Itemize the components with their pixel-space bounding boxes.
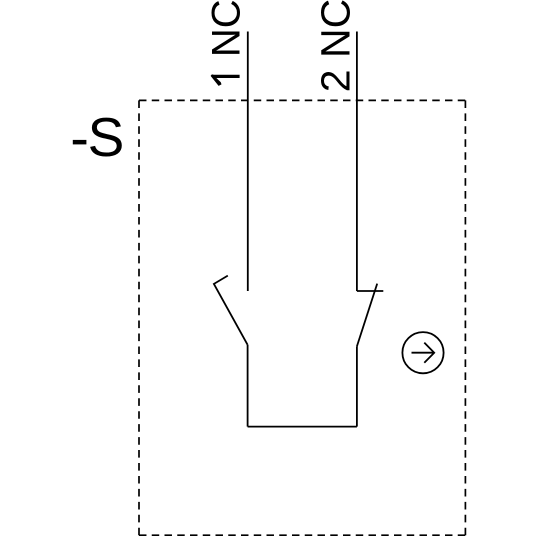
device outline (dashed enclosure) (139, 100, 465, 535)
wire terminal 2 (top, x=356.9) (356, 32, 358, 292)
wire terminal 1 (top, x=247.8) (247, 32, 249, 292)
enclosure right edge (464, 100, 466, 535)
pin label 1 NC : digit 1 (drawn, rotated) (211, 74, 240, 86)
wire lower vertical pin2 side (356, 346, 358, 426)
enclosure bottom edge (139, 534, 465, 536)
reference designator -S : hyphen (73, 140, 87, 145)
actuator symbol: circle with arrow (402, 332, 443, 373)
contact K1 moving arm with bent tip (NC contact, pin 1) (214, 276, 248, 345)
enclosure top edge (139, 99, 465, 101)
actuator linkage bar (bottom) (248, 426, 357, 428)
enclosure left edge (138, 100, 140, 535)
actuator circle (402, 332, 443, 373)
svg-text:NC: NC (204, 0, 248, 57)
arrow head (424, 343, 434, 363)
contact K2 moving arm diagonal (357, 284, 377, 347)
svg-text:2 NC: 2 NC (313, 0, 359, 92)
arrow shaft (412, 352, 434, 354)
svg-text:S: S (88, 106, 125, 168)
contact K2 fixed seat (NC contact, pin 2) (357, 290, 383, 292)
wire lower vertical pin1 side (247, 345, 249, 427)
